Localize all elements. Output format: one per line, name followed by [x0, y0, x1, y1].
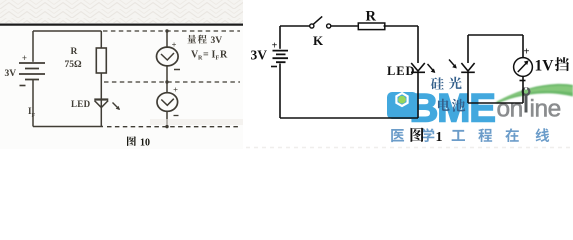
svg-text:F: F [216, 56, 220, 62]
C2 top wire mid [331, 25, 358, 27]
voltmeter V2 minus [174, 115, 179, 117]
svg-text:=: = [203, 50, 209, 61]
svg-text:R: R [71, 47, 78, 57]
svg-text:R: R [366, 8, 377, 24]
range label 程 [198, 35, 207, 44]
switch K terminal right [327, 24, 331, 28]
svg-text:1V: 1V [535, 58, 555, 75]
battery B1 3V plates [19, 63, 45, 80]
svg-text:+: + [173, 85, 178, 95]
photocell label 电 [438, 99, 450, 111]
watermark logo tile [387, 92, 418, 119]
scan artifact bottom band [2, 146, 240, 149]
C2 left wire lower [279, 64, 281, 119]
svg-text:LED: LED [71, 99, 91, 109]
caption 图 (fig 10) [127, 136, 136, 146]
LED D2 symbol [411, 63, 425, 72]
voltmeter branch wire [166, 31, 168, 127]
resistor R body [96, 48, 106, 73]
svg-text:BME: BME [410, 87, 496, 131]
LED D2 emission arrow [428, 64, 435, 72]
svg-text:3V: 3V [5, 69, 17, 79]
watermark text 工 [452, 130, 465, 141]
battery B1 minus label [20, 85, 26, 87]
C1 top wire [33, 30, 101, 32]
junction node top [165, 29, 168, 32]
svg-text:+: + [272, 41, 278, 52]
C2 left wire upper [279, 26, 281, 49]
svg-text:R: R [220, 50, 228, 61]
range label 量 [187, 35, 196, 44]
svg-text:ine: ine [530, 96, 561, 123]
scanned paper background (left figure) [0, 0, 243, 149]
voltmeter V2 body [157, 93, 178, 112]
svg-text:+: + [172, 40, 177, 50]
voltmeter V1 minus [174, 69, 180, 71]
svg-text:+: + [524, 47, 530, 58]
voltmeter V1 check mark [161, 53, 174, 60]
C1 left wire upper [32, 31, 34, 62]
photocell label 池 [452, 99, 465, 112]
photodiode branch upper [467, 35, 469, 63]
photodiode branch lower [467, 72, 469, 103]
LED D1 symbol [94, 98, 108, 100]
meter M1 body [514, 58, 533, 77]
watermark logo green ball [398, 96, 406, 104]
photocell label 硅 [431, 77, 444, 89]
photodiode incoming light arrow [449, 60, 456, 68]
resistor R branch top wire [100, 31, 102, 48]
LED D1 branch wire [100, 73, 102, 127]
resistor R body (C2) [358, 23, 385, 30]
watermark text 学 [421, 128, 434, 142]
C1 bottom wire [33, 126, 103, 128]
photocell label 光 [449, 77, 462, 90]
svg-text:LED: LED [387, 64, 415, 78]
meter range 挡 [555, 57, 569, 71]
meter M1 minus [520, 80, 526, 82]
page rule line [0, 24, 243, 26]
photocell loop bottom wire [468, 102, 523, 104]
watermark text 程 [478, 129, 492, 143]
C1 mid dashed line [104, 81, 240, 83]
svg-text:3V: 3V [251, 48, 268, 63]
meter M1 needle [518, 63, 526, 72]
C1 bottom dashed extension [107, 126, 240, 128]
voltmeter V2 check mark [161, 99, 174, 106]
watermark wrench icon [523, 88, 530, 95]
svg-text:+: + [22, 53, 27, 63]
svg-text:1: 1 [436, 130, 443, 145]
C2 bottom wire [280, 117, 418, 119]
watermark logo hexagon [396, 93, 407, 106]
battery B2 plates [273, 51, 289, 63]
scan smudge band left [150, 119, 243, 125]
photodiode symbol [461, 63, 475, 72]
junction node mid [165, 80, 168, 83]
junction node bottom [165, 125, 168, 128]
paper texture hatch strip [0, 0, 243, 23]
C1 top dashed extension [103, 30, 240, 32]
svg-text:75Ω: 75Ω [65, 60, 83, 70]
photocell loop top wire [468, 34, 523, 36]
svg-text:K: K [313, 33, 324, 48]
LED D1 emission arrow [113, 103, 120, 110]
watermark green swoosh [496, 84, 573, 104]
switch K terminal left [310, 24, 314, 28]
caption 图 (fig 1) [411, 128, 424, 142]
voltmeter V1 body [157, 47, 179, 66]
watermark text 在 [505, 128, 518, 142]
meter branch lower [522, 76, 524, 103]
watermark text 线 [536, 128, 550, 142]
svg-text:F: F [32, 113, 36, 119]
svg-text:on: on [497, 96, 523, 123]
C2 top wire right [384, 25, 419, 27]
battery B2 minus [271, 66, 277, 68]
LED D2 branch upper [417, 26, 419, 63]
meter M1 branch upper [522, 35, 524, 58]
C1 left wire lower [32, 80, 34, 127]
switch K blade [313, 16, 322, 24]
C2 top wire left [280, 25, 310, 27]
watermark text 医 [391, 129, 404, 142]
LED D2 branch lower [417, 72, 419, 118]
svg-text:3V: 3V [211, 36, 223, 46]
